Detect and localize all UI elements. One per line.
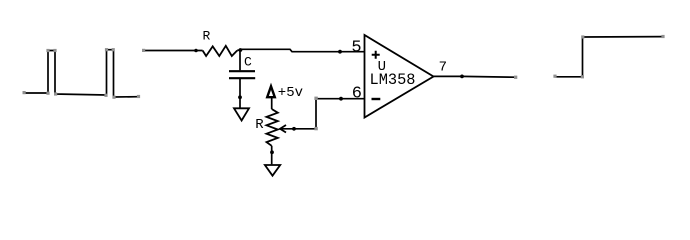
minus input marker xyxy=(372,98,381,100)
svg-text:R: R xyxy=(255,117,264,133)
junction dot on output wire xyxy=(460,75,464,79)
input waveform trace (pulse train) xyxy=(24,50,139,97)
resistor R xyxy=(203,46,238,56)
plus input marker xyxy=(372,51,380,59)
ground (below potentiometer) xyxy=(265,165,280,176)
input waveform vertex handles xyxy=(23,48,141,99)
handle at output wire end xyxy=(514,76,517,79)
svg-text:6: 6 xyxy=(352,84,362,103)
junction dot on wiper wire xyxy=(292,127,296,131)
handle at pin-6 wire corner xyxy=(314,97,317,100)
junction dot on pin-6 wire xyxy=(339,97,343,101)
junction dot on capacitor ground lead xyxy=(238,95,242,99)
svg-text:R: R xyxy=(203,29,211,44)
wire resistor to op-amp pin 5 xyxy=(237,49,364,51)
svg-text:7: 7 xyxy=(439,59,447,75)
svg-text:LM358: LM358 xyxy=(370,71,416,89)
svg-text:5: 5 xyxy=(351,38,361,57)
potentiometer wiper arrow xyxy=(280,125,286,133)
op-amp U LM358 xyxy=(365,35,434,118)
capacitor C xyxy=(229,50,255,108)
output waveform trace (step) xyxy=(555,37,663,77)
wire input to resistor xyxy=(144,50,203,52)
junction dot at R-C node xyxy=(239,48,243,52)
ground (below capacitor) xyxy=(234,108,249,120)
handle at wiper wire corner xyxy=(314,127,317,130)
junction dot on pot ground lead xyxy=(270,150,274,154)
handle at input wire start xyxy=(142,49,145,52)
+5v supply arrow xyxy=(267,86,275,109)
output waveform vertex handles xyxy=(553,35,664,78)
potentiometer R xyxy=(267,109,278,146)
output wire xyxy=(434,75,516,78)
wire wiper to op-amp pin 6 xyxy=(280,99,365,129)
junction dot on pin-5 wire xyxy=(338,50,342,54)
wire potentiometer to ground xyxy=(271,146,273,165)
svg-text:C: C xyxy=(244,55,252,70)
junction dot on input wire xyxy=(194,49,198,53)
svg-text:+5v: +5v xyxy=(278,85,303,101)
